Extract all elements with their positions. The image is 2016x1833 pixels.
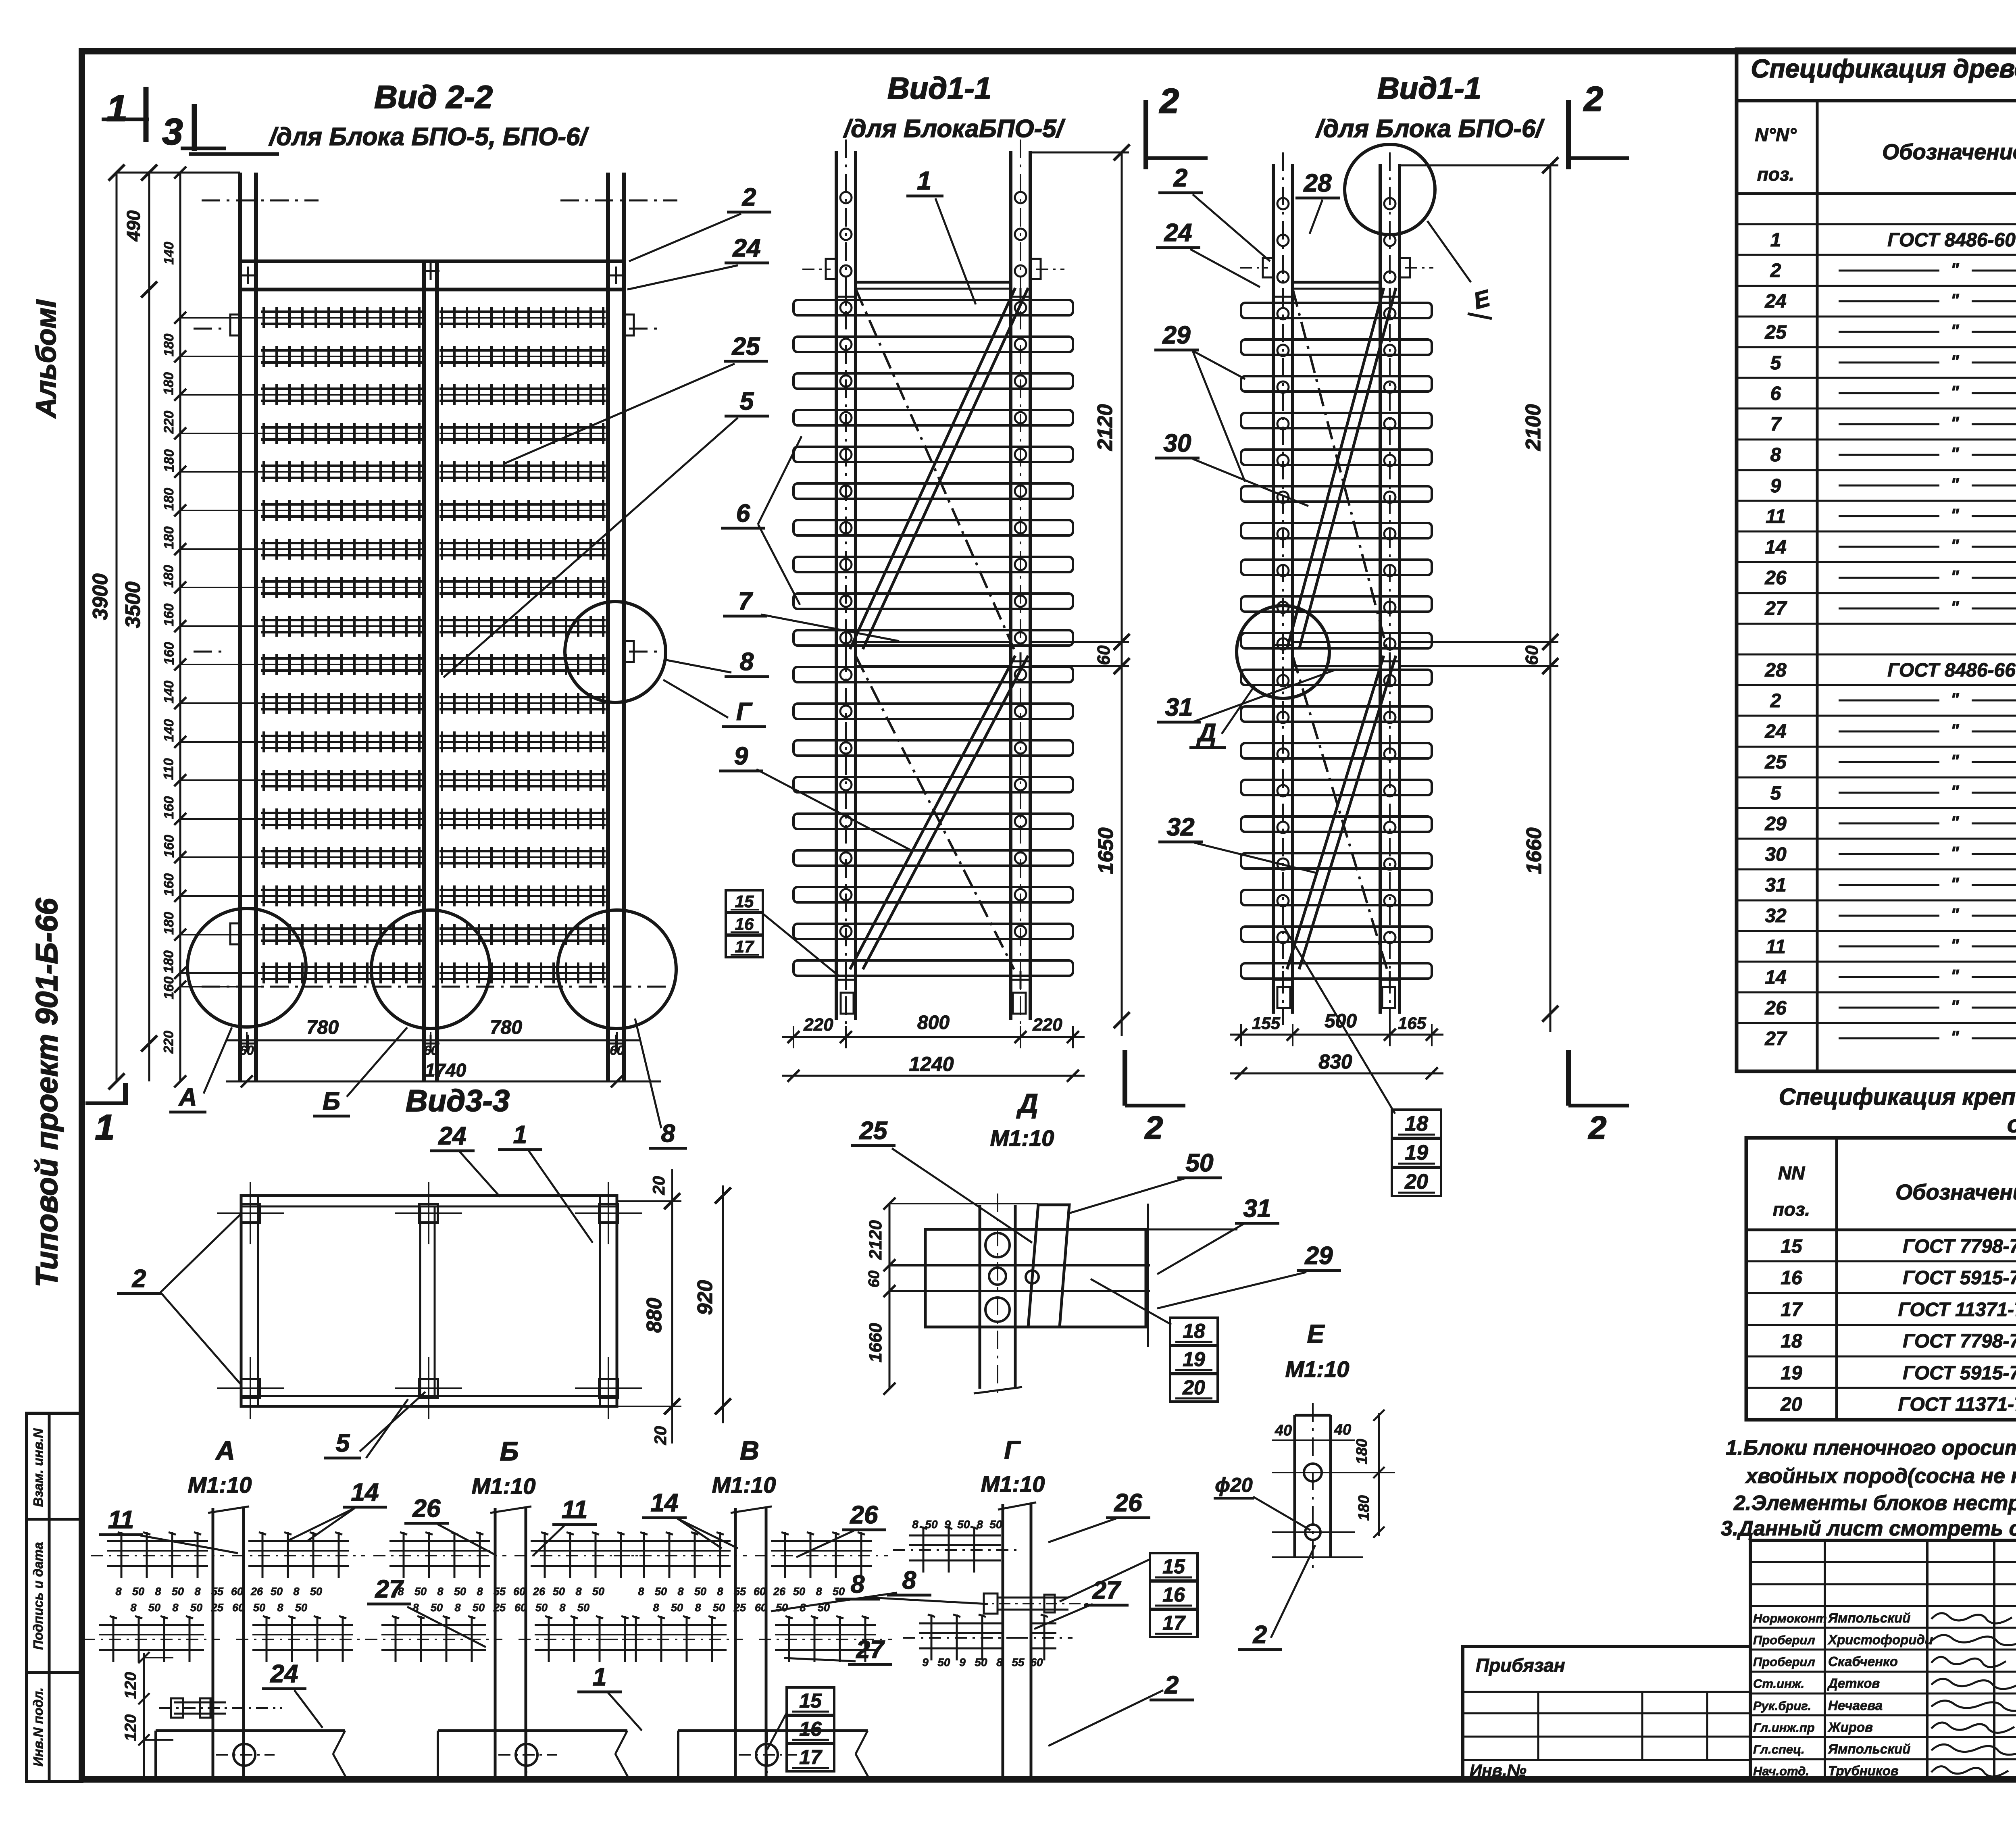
svg-text:17: 17 xyxy=(799,1746,823,1768)
svg-text:140: 140 xyxy=(161,719,177,742)
svg-text:26: 26 xyxy=(250,1585,263,1598)
bottom dimension 220-800-220 xyxy=(782,1036,1085,1038)
svg-text:25: 25 xyxy=(732,333,760,360)
svg-text:М1:10: М1:10 xyxy=(712,1472,776,1498)
svg-text:32: 32 xyxy=(1167,813,1195,841)
svg-text:50: 50 xyxy=(414,1585,427,1598)
detail A post and slat sections xyxy=(212,1508,215,1777)
svg-text:50: 50 xyxy=(271,1585,283,1598)
detail G upper slat band xyxy=(909,1535,1001,1537)
svg-text:Ямпольский: Ямпольский xyxy=(1828,1741,1910,1756)
svg-text:2: 2 xyxy=(742,183,756,211)
svg-text:17: 17 xyxy=(1781,1299,1803,1321)
svg-text:50: 50 xyxy=(592,1585,604,1598)
svg-text:120: 120 xyxy=(122,1714,140,1741)
title block signature table xyxy=(1750,1540,2016,1781)
view 2-2 middle stand rail xyxy=(422,261,426,1081)
margin stamp table bottom-left xyxy=(27,1413,82,1781)
svg-text:8: 8 xyxy=(695,1602,701,1614)
post foot plates BPO-6 xyxy=(1277,987,1290,1008)
svg-text:60: 60 xyxy=(1030,1656,1043,1668)
view 2-2 working slats rows xyxy=(261,310,422,313)
svg-text:11: 11 xyxy=(1766,506,1786,527)
svg-text:27: 27 xyxy=(1764,598,1787,619)
boxed references 18 19 20 detail D xyxy=(1091,1279,1171,1325)
boxed references 15 16 17 bolt set xyxy=(726,890,763,912)
svg-text:180: 180 xyxy=(161,333,177,356)
plan view middle stand column xyxy=(419,1206,421,1396)
svg-text:60: 60 xyxy=(240,1043,254,1058)
view 1-1 BPO-5 diagonal brace lower (solid) xyxy=(850,656,1015,969)
bottom dimension 830 xyxy=(1230,1073,1443,1075)
svg-text:160: 160 xyxy=(161,873,177,896)
svg-text:780: 780 xyxy=(306,1017,339,1038)
svg-text:ϕ20: ϕ20 xyxy=(1215,1474,1253,1496)
svg-text:Скабченко: Скабченко xyxy=(1828,1654,1898,1669)
svg-text:1660: 1660 xyxy=(866,1323,885,1362)
svg-text:Христофориди: Христофориди xyxy=(1827,1632,1933,1647)
detail circle A bottom-left joint xyxy=(187,908,306,1027)
svg-text:26: 26 xyxy=(1114,1489,1142,1517)
svg-text:160: 160 xyxy=(161,835,177,858)
svg-text:А: А xyxy=(178,1083,197,1111)
svg-text:1650: 1650 xyxy=(1094,827,1118,874)
spec table 1 outer box xyxy=(1737,49,2016,1071)
svg-text:15: 15 xyxy=(1162,1555,1185,1578)
svg-text:30: 30 xyxy=(1765,844,1787,865)
svg-text:50: 50 xyxy=(253,1602,265,1614)
view 1-1 BPO-5 diagonal brace lower (dashed far side) xyxy=(856,656,1014,969)
svg-text:8: 8 xyxy=(437,1585,443,1598)
svg-text:": " xyxy=(1951,935,1960,955)
svg-text:26: 26 xyxy=(773,1585,786,1598)
svg-text:55: 55 xyxy=(734,1585,746,1598)
detail E stand piece xyxy=(1293,1415,1296,1557)
svg-text:8: 8 xyxy=(155,1585,161,1598)
svg-text:26: 26 xyxy=(850,1501,878,1529)
svg-text:2: 2 xyxy=(1173,164,1187,192)
svg-text:25: 25 xyxy=(211,1602,224,1614)
svg-text:/для Блока БПО-5, БПО-6/: /для Блока БПО-5, БПО-6/ xyxy=(268,123,589,151)
spec table 1 column lines xyxy=(1816,101,1819,1071)
svg-text:Инв.N подл.: Инв.N подл. xyxy=(31,1687,46,1766)
svg-text:55: 55 xyxy=(1012,1656,1025,1668)
dimension chain 3500 vertical line xyxy=(148,173,150,1081)
svg-text:140: 140 xyxy=(161,681,177,704)
svg-text:Жиров: Жиров xyxy=(1827,1720,1873,1735)
svg-text:1740: 1740 xyxy=(425,1060,467,1081)
svg-text:2: 2 xyxy=(1253,1621,1267,1649)
svg-text:50: 50 xyxy=(148,1602,160,1614)
boxed references 15 16 17 right of detail V xyxy=(787,1687,834,1715)
svg-text:2.Элементы блоков нестроганны: 2.Элементы блоков нестроганные. xyxy=(1733,1491,2016,1515)
svg-text:25: 25 xyxy=(733,1602,746,1614)
detail A dimension 120 120 xyxy=(143,1653,145,1779)
svg-text:16: 16 xyxy=(799,1718,822,1740)
svg-text:": " xyxy=(1951,505,1960,525)
svg-text:": " xyxy=(1951,290,1960,310)
svg-text:50: 50 xyxy=(694,1585,706,1598)
svg-text:920: 920 xyxy=(694,1280,717,1315)
svg-text:16: 16 xyxy=(735,914,754,933)
extension lines from dimension chain to ladder xyxy=(180,317,261,319)
view 1-1 BPO-6 working slats xyxy=(1241,303,1432,318)
plus marks at rail bottoms xyxy=(239,1043,257,1045)
svg-text:Вид 2-2: Вид 2-2 xyxy=(374,79,493,115)
svg-text:Б: Б xyxy=(323,1087,340,1115)
svg-text:М1:10: М1:10 xyxy=(981,1471,1045,1497)
svg-text:15: 15 xyxy=(1781,1236,1803,1257)
svg-text:180: 180 xyxy=(161,912,177,935)
detail circle V bottom-right joint xyxy=(558,910,676,1029)
section mark 2 bottom middle xyxy=(1123,1050,1127,1106)
svg-text:220: 220 xyxy=(161,411,177,434)
svg-text:155: 155 xyxy=(1252,1014,1281,1033)
svg-text:60: 60 xyxy=(231,1585,243,1598)
svg-text:16: 16 xyxy=(1162,1583,1185,1606)
svg-text:180: 180 xyxy=(161,488,177,511)
svg-text:19: 19 xyxy=(1405,1141,1428,1164)
svg-text:": " xyxy=(1951,689,1960,709)
svg-text:8: 8 xyxy=(996,1656,1003,1668)
svg-text:": " xyxy=(1951,321,1960,341)
svg-text:М1:10: М1:10 xyxy=(188,1472,252,1498)
small fixing plate marks on rails xyxy=(230,315,241,335)
svg-text:8: 8 xyxy=(575,1585,581,1598)
plan dimension 920 xyxy=(722,1185,724,1423)
svg-text:8: 8 xyxy=(559,1602,565,1614)
svg-text:140: 140 xyxy=(161,242,177,265)
svg-text:Нечаева: Нечаева xyxy=(1828,1698,1883,1713)
svg-text:Гл.инж.пр: Гл.инж.пр xyxy=(1753,1721,1815,1735)
svg-text:18: 18 xyxy=(1405,1112,1428,1135)
svg-text:24: 24 xyxy=(1764,721,1786,742)
detail D middle tie band xyxy=(889,1264,1150,1266)
svg-text:2: 2 xyxy=(1588,1110,1607,1146)
svg-text:50: 50 xyxy=(671,1602,683,1614)
detail E dimension lines xyxy=(1272,1439,1355,1441)
svg-text:800: 800 xyxy=(917,1012,950,1033)
view 1-1 BPO-5 top tie beam xyxy=(856,281,1011,284)
svg-text:": " xyxy=(1951,782,1960,802)
svg-text:": " xyxy=(1951,997,1960,1016)
svg-text:2: 2 xyxy=(1144,1110,1163,1146)
svg-text:27: 27 xyxy=(1092,1577,1121,1604)
dimension chain of slat spacings vertical line xyxy=(179,173,181,1081)
svg-text:60: 60 xyxy=(754,1585,766,1598)
svg-text:3900: 3900 xyxy=(89,573,112,620)
view 1-1 BPO-6 top tie beam xyxy=(1293,281,1380,284)
svg-text:19: 19 xyxy=(1781,1362,1802,1384)
svg-text:Д: Д xyxy=(1016,1088,1038,1119)
svg-text:50: 50 xyxy=(577,1602,589,1614)
svg-text:60: 60 xyxy=(232,1602,244,1614)
svg-text:24: 24 xyxy=(1164,219,1192,247)
svg-text:50: 50 xyxy=(655,1585,667,1598)
svg-text:Вид3-3: Вид3-3 xyxy=(406,1084,510,1118)
plan view corner and middle posts xyxy=(241,1204,260,1223)
detail D diagonal brace piece xyxy=(1028,1205,1069,1327)
svg-text:50: 50 xyxy=(1186,1149,1214,1177)
svg-text:Ямпольский: Ямпольский xyxy=(1828,1610,1910,1625)
svg-text:180: 180 xyxy=(161,526,177,549)
bottom dimension 1240 xyxy=(782,1075,1085,1077)
title block pribyazan box xyxy=(1463,1646,1750,1781)
svg-text:17: 17 xyxy=(735,937,754,956)
svg-text:Проберил: Проберил xyxy=(1753,1633,1815,1647)
label E with flag xyxy=(1427,221,1471,282)
svg-text:14: 14 xyxy=(351,1479,379,1506)
svg-text:А: А xyxy=(215,1435,235,1465)
slat spacing tick marks and labels xyxy=(174,167,186,179)
boxed references 15 16 17 detail G xyxy=(1060,1560,1149,1602)
svg-text:3.Данный лист смотреть совм: 3.Данный лист смотреть совместно с листа… xyxy=(1721,1517,2016,1540)
view 1-1 BPO-6 left stand post with bolts xyxy=(1272,164,1275,1014)
spec table 2 outer box xyxy=(1746,1138,2016,1420)
svg-text:ГОСТ 8486-60: ГОСТ 8486-60 xyxy=(1887,229,2016,251)
view 1-1 BPO-6 diagonal brace lower (solid) xyxy=(1287,656,1384,969)
svg-text:27: 27 xyxy=(1764,1028,1787,1050)
svg-text:50: 50 xyxy=(190,1602,202,1614)
svg-text:/для БлокаБПО-5/: /для БлокаБПО-5/ xyxy=(843,115,1066,143)
svg-text:29: 29 xyxy=(1162,321,1191,349)
svg-text:Детков: Детков xyxy=(1827,1676,1880,1691)
svg-text:14: 14 xyxy=(1765,537,1786,558)
svg-text:8: 8 xyxy=(293,1585,299,1598)
detail V post and slat sections xyxy=(734,1508,737,1777)
svg-text:2: 2 xyxy=(132,1265,146,1293)
title block signature squiggles xyxy=(1931,1613,2012,1623)
svg-text:18: 18 xyxy=(1781,1331,1802,1352)
svg-text:8: 8 xyxy=(172,1602,178,1614)
boxed references 18 19 20 below BPO-6 xyxy=(1284,927,1395,1114)
svg-text:8: 8 xyxy=(717,1585,723,1598)
view 1-1 BPO-5 left stand post with bolts xyxy=(835,151,838,1020)
view 1-1 BPO-6 middle tie beam xyxy=(1293,641,1380,643)
svg-text:8: 8 xyxy=(454,1602,460,1614)
svg-text:1240: 1240 xyxy=(909,1053,954,1075)
svg-text:55: 55 xyxy=(211,1585,224,1598)
svg-text:2: 2 xyxy=(1164,1671,1179,1699)
svg-text:160: 160 xyxy=(161,796,177,819)
svg-text:24: 24 xyxy=(733,234,761,262)
svg-text:24: 24 xyxy=(438,1122,467,1150)
view 2-2 right stand rail xyxy=(606,173,610,1081)
view 2-2 left stand rail xyxy=(238,173,242,1081)
svg-text:20: 20 xyxy=(649,1176,668,1196)
detail D bolts xyxy=(985,1233,1010,1257)
spec table 1 rows xyxy=(1737,223,2016,225)
svg-text:": " xyxy=(1951,905,1960,925)
view 1-1 BPO-6 diagonal brace lower (dashed) xyxy=(1293,656,1387,969)
svg-text:16: 16 xyxy=(1781,1267,1802,1289)
svg-text:180: 180 xyxy=(1356,1495,1372,1521)
svg-text:14: 14 xyxy=(1765,967,1786,988)
svg-text:АльбомI: АльбомI xyxy=(30,299,62,419)
svg-text:180: 180 xyxy=(161,565,177,588)
svg-text:": " xyxy=(1951,843,1960,863)
svg-text:50: 50 xyxy=(454,1585,466,1598)
svg-text:Рук.бриг.: Рук.бриг. xyxy=(1753,1699,1811,1713)
svg-text:50: 50 xyxy=(535,1602,548,1614)
svg-text:1: 1 xyxy=(513,1121,527,1149)
svg-text:": " xyxy=(1951,1027,1960,1047)
svg-text:1: 1 xyxy=(95,1107,115,1147)
svg-text:20: 20 xyxy=(1780,1394,1802,1415)
bottom dimension line 1740 xyxy=(226,1081,661,1083)
svg-text:60: 60 xyxy=(513,1585,525,1598)
svg-text:М1:10: М1:10 xyxy=(1285,1356,1350,1382)
svg-text:В: В xyxy=(740,1435,759,1465)
svg-text:поз.: поз. xyxy=(1757,164,1794,185)
svg-text:40: 40 xyxy=(1275,1422,1292,1439)
svg-text:Обозначение: Обозначение xyxy=(1882,140,2016,164)
svg-text:8: 8 xyxy=(130,1602,136,1614)
svg-text:8: 8 xyxy=(851,1571,865,1598)
svg-text:": " xyxy=(1951,598,1960,617)
svg-text:160: 160 xyxy=(161,642,177,665)
svg-text:9: 9 xyxy=(944,1518,951,1531)
detail D beam rectangle xyxy=(925,1229,1146,1327)
svg-text:18: 18 xyxy=(1183,1320,1205,1342)
svg-text:8: 8 xyxy=(677,1585,683,1598)
spec table 2 rows xyxy=(1746,1260,2016,1262)
detail G stand post xyxy=(1002,1504,1004,1781)
detail E bolt holes xyxy=(1304,1464,1322,1481)
detail B post and slat sections xyxy=(494,1508,497,1777)
svg-text:15: 15 xyxy=(735,892,754,911)
svg-text:26: 26 xyxy=(533,1585,546,1598)
svg-text:Д: Д xyxy=(1196,719,1216,747)
svg-text:М1:10: М1:10 xyxy=(990,1125,1054,1151)
svg-text:180: 180 xyxy=(161,449,177,472)
svg-text:ГОСТ 11371-78: ГОСТ 11371-78 xyxy=(1898,1299,2016,1321)
svg-text:60: 60 xyxy=(514,1602,527,1614)
svg-text:9: 9 xyxy=(1770,475,1781,497)
svg-text:50: 50 xyxy=(793,1585,805,1598)
svg-text:8: 8 xyxy=(194,1585,200,1598)
svg-text:2: 2 xyxy=(1770,260,1781,281)
detail D stand post xyxy=(979,1205,981,1389)
svg-text:25: 25 xyxy=(1764,752,1787,773)
bottom dimension line 780-60-780 xyxy=(226,1039,641,1041)
svg-text:27: 27 xyxy=(856,1636,885,1664)
svg-text:": " xyxy=(1951,567,1960,587)
svg-text:50: 50 xyxy=(989,1518,1002,1531)
svg-text:8: 8 xyxy=(1770,444,1781,466)
svg-text:1: 1 xyxy=(106,88,127,129)
section mark 1 bottom-left xyxy=(85,1102,125,1105)
svg-text:19: 19 xyxy=(1183,1348,1205,1371)
svg-text:220: 220 xyxy=(161,1031,177,1054)
detail circle B bottom-middle joint xyxy=(371,910,490,1029)
view 1-1 BPO-5 diagonal brace upper (dashed far side) xyxy=(856,289,1014,649)
svg-text:180: 180 xyxy=(161,950,177,973)
svg-text:2100: 2100 xyxy=(1522,404,1545,451)
svg-text:5: 5 xyxy=(1770,352,1782,374)
svg-text:50: 50 xyxy=(172,1585,184,1598)
svg-text:2120: 2120 xyxy=(1093,404,1117,451)
right dimension chain of view 1-1 BPO-5 xyxy=(1121,152,1123,1036)
svg-text:1.Блоки пленочного оросителя: 1.Блоки пленочного оросителя изготавлива… xyxy=(1726,1436,2016,1460)
svg-text:31: 31 xyxy=(1765,875,1786,896)
svg-text:8: 8 xyxy=(638,1585,644,1598)
svg-text:": " xyxy=(1951,475,1960,494)
svg-text:5: 5 xyxy=(740,387,754,415)
svg-text:1: 1 xyxy=(917,166,931,195)
svg-text:50: 50 xyxy=(132,1585,144,1598)
detail D left dimension chain 2120-60-1660 xyxy=(889,1204,891,1389)
svg-text:26: 26 xyxy=(412,1495,441,1523)
svg-text:25: 25 xyxy=(493,1602,506,1614)
svg-text:": " xyxy=(1951,444,1960,464)
svg-text:780: 780 xyxy=(490,1017,522,1038)
svg-text:15: 15 xyxy=(799,1689,822,1712)
svg-text:Проберил: Проберил xyxy=(1753,1655,1815,1669)
svg-text:Вид1-1: Вид1-1 xyxy=(1377,71,1481,106)
svg-text:3500: 3500 xyxy=(121,581,145,628)
svg-text:20: 20 xyxy=(1404,1170,1428,1194)
svg-text:": " xyxy=(1951,812,1960,832)
svg-text:2: 2 xyxy=(1770,690,1781,712)
svg-text:хвойных пород(сосна не ниже: хвойных пород(сосна не ниже 2 сорта,влаж… xyxy=(1745,1464,2016,1488)
svg-text:17: 17 xyxy=(1162,1612,1186,1634)
svg-text:50: 50 xyxy=(473,1602,485,1614)
svg-text:8: 8 xyxy=(661,1120,675,1148)
svg-text:55: 55 xyxy=(494,1585,506,1598)
svg-text:Ст.инж.: Ст.инж. xyxy=(1753,1677,1804,1691)
detail circle E top of right post xyxy=(1345,144,1435,235)
view 1-1 BPO-6 right stand post with bolts xyxy=(1379,164,1382,1014)
svg-text:9: 9 xyxy=(959,1656,966,1668)
svg-text:оросителя.: оросителя. xyxy=(2007,1111,2016,1137)
svg-text:": " xyxy=(1951,413,1960,433)
svg-text:9: 9 xyxy=(734,742,748,770)
svg-text:50: 50 xyxy=(957,1518,970,1531)
svg-text:6: 6 xyxy=(1770,383,1781,404)
svg-text:60: 60 xyxy=(755,1602,767,1614)
svg-text:Гл.спец.: Гл.спец. xyxy=(1753,1742,1805,1756)
svg-text:24: 24 xyxy=(270,1660,298,1688)
svg-text:25: 25 xyxy=(1764,322,1787,343)
svg-text:29: 29 xyxy=(1305,1242,1333,1270)
detail G lower slat band xyxy=(919,1623,1002,1625)
svg-text:830: 830 xyxy=(1318,1050,1352,1073)
view 2-2 bottom centerline xyxy=(202,986,677,988)
svg-text:180: 180 xyxy=(1354,1439,1370,1464)
view 1-1 BPO-5 middle tie beam xyxy=(856,641,1011,643)
fixing plates on BPO-6 posts xyxy=(1263,258,1273,277)
svg-text:50: 50 xyxy=(833,1585,845,1598)
svg-text:Е: Е xyxy=(1307,1319,1325,1348)
svg-text:3: 3 xyxy=(162,111,183,152)
svg-text:165: 165 xyxy=(1398,1014,1427,1033)
detail A bolt through post xyxy=(174,1702,226,1704)
detail circle D on left post middle xyxy=(1237,606,1329,698)
svg-text:880: 880 xyxy=(643,1298,666,1333)
plus marks on top beam xyxy=(239,275,257,277)
view 2-2 top frame beam xyxy=(240,260,624,263)
svg-text:27: 27 xyxy=(375,1575,404,1603)
svg-text:поз.: поз. xyxy=(1773,1199,1810,1220)
svg-text:50: 50 xyxy=(925,1518,938,1531)
svg-text:31: 31 xyxy=(1165,694,1193,721)
svg-text:5: 5 xyxy=(1770,783,1782,804)
svg-text:ГОСТ 7798-70: ГОСТ 7798-70 xyxy=(1903,1236,2016,1257)
svg-text:Вид1-1: Вид1-1 xyxy=(887,71,991,106)
svg-text:NN: NN xyxy=(1778,1162,1805,1183)
svg-text:Взам. инв.N: Взам. инв.N xyxy=(31,1428,46,1507)
